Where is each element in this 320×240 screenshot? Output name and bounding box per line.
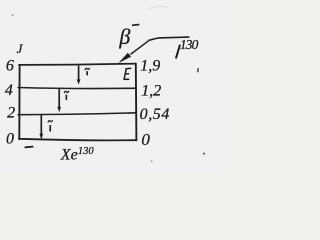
gamma arrow 3 (J=2 to J=0)	[39, 115, 43, 140]
scan speck bottom center	[151, 160, 153, 162]
svg-text:130: 130	[180, 37, 199, 52]
svg-text:β: β	[118, 24, 130, 49]
beta-minus decay arrow	[118, 40, 149, 63]
level line J=4 (1.2 MeV)	[18, 88, 136, 89]
svg-text:1,9: 1,9	[140, 58, 160, 75]
svg-text:0,54: 0,54	[140, 106, 170, 123]
svg-text:0: 0	[141, 130, 150, 149]
beta superscript minus	[132, 24, 140, 27]
tick mark below ground level	[25, 146, 32, 149]
excitation energy label E	[124, 68, 131, 79]
svg-text:1,2: 1,2	[141, 82, 161, 99]
level line J=6 (1.9 MeV, top edge)	[19, 64, 136, 65]
svg-text:130: 130	[78, 146, 95, 157]
gamma label 1	[85, 68, 90, 76]
gamma label 2	[64, 91, 69, 100]
svg-text:0: 0	[6, 131, 14, 148]
svg-text:2: 2	[7, 104, 15, 121]
svg-text:Xe: Xe	[60, 146, 78, 163]
svg-text:6: 6	[6, 57, 14, 74]
scan speck top left	[12, 14, 14, 16]
level line J=0 (ground state, bottom edge)	[19, 139, 136, 141]
level box left edge	[18, 65, 20, 139]
level line J=2 (0.54 MeV)	[18, 113, 136, 115]
gamma arrow 1 (J=6 to J=4)	[77, 66, 81, 85]
scan speck bottom right	[203, 153, 205, 155]
scan smudge top	[148, 6, 168, 9]
gamma arrow 2 (J=4 to J=2)	[57, 89, 61, 113]
scan speck near right edge	[197, 69, 199, 72]
level box right edge	[135, 64, 138, 141]
gamma label 3	[48, 120, 53, 131]
I-130 parent level line	[149, 37, 189, 40]
I-130 nuclide label	[176, 45, 180, 57]
svg-text:4: 4	[5, 82, 13, 99]
